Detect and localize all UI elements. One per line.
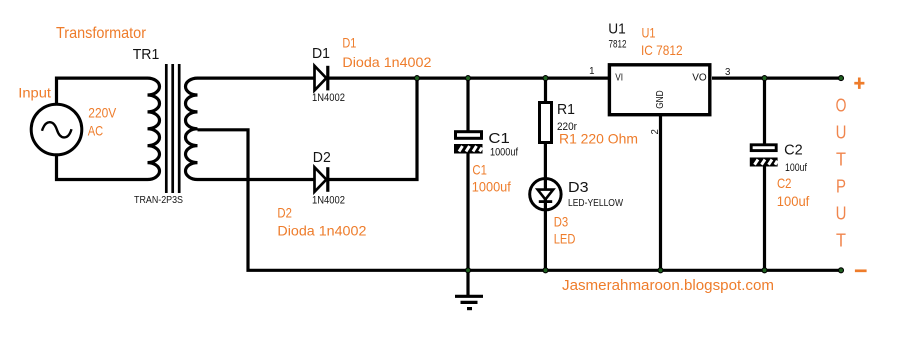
- svg-text:D3: D3: [554, 213, 569, 229]
- svg-text:1000uf: 1000uf: [472, 178, 511, 194]
- svg-text:Dioda 1n4002: Dioda 1n4002: [342, 54, 431, 70]
- svg-text:2: 2: [650, 129, 661, 134]
- svg-text:Dioda 1n4002: Dioda 1n4002: [277, 222, 366, 238]
- svg-text:C1: C1: [472, 161, 487, 177]
- svg-text:3: 3: [725, 67, 730, 78]
- svg-text:D1: D1: [312, 45, 330, 62]
- svg-text:R1: R1: [557, 101, 575, 118]
- svg-text:U: U: [836, 203, 847, 224]
- svg-text:Input: Input: [18, 84, 51, 100]
- svg-text:U1: U1: [642, 24, 656, 40]
- svg-text:IC 7812: IC 7812: [641, 42, 683, 58]
- svg-text:D3: D3: [568, 179, 589, 196]
- svg-text:100uf: 100uf: [777, 193, 810, 209]
- svg-text:C1: C1: [488, 130, 509, 147]
- svg-text:C2: C2: [777, 175, 792, 191]
- svg-text:1N4002: 1N4002: [312, 92, 345, 104]
- svg-text:1N4002: 1N4002: [312, 195, 345, 207]
- svg-text:220V: 220V: [88, 105, 116, 121]
- svg-text:TRAN-2P3S: TRAN-2P3S: [134, 195, 183, 206]
- svg-text:VI: VI: [615, 72, 623, 83]
- svg-text:D2: D2: [277, 204, 292, 220]
- svg-text:GND: GND: [655, 90, 666, 109]
- svg-text:D2: D2: [313, 149, 331, 166]
- svg-text:U: U: [836, 122, 847, 143]
- svg-text:T: T: [836, 149, 846, 170]
- svg-text:P: P: [836, 176, 846, 197]
- svg-text:7812: 7812: [609, 39, 627, 51]
- svg-text:U1: U1: [608, 21, 626, 38]
- svg-text:Jasmerahmaroon.blogspot.com: Jasmerahmaroon.blogspot.com: [562, 277, 774, 294]
- svg-text:LED-YELLOW: LED-YELLOW: [568, 197, 623, 209]
- svg-text:VO: VO: [692, 72, 707, 84]
- svg-text:1000uf: 1000uf: [490, 147, 519, 159]
- svg-text:100uf: 100uf: [785, 162, 808, 174]
- svg-text:TR1: TR1: [133, 46, 160, 63]
- svg-text:LED: LED: [554, 230, 576, 246]
- svg-text:D1: D1: [342, 34, 356, 50]
- svg-text:C2: C2: [784, 142, 803, 159]
- svg-text:T: T: [836, 230, 846, 251]
- svg-text:1: 1: [589, 66, 594, 77]
- svg-text:Transformator: Transformator: [56, 25, 147, 42]
- svg-text:AC: AC: [88, 122, 103, 138]
- svg-text:O: O: [836, 95, 847, 116]
- svg-text:R1 220 Ohm: R1 220 Ohm: [559, 131, 638, 147]
